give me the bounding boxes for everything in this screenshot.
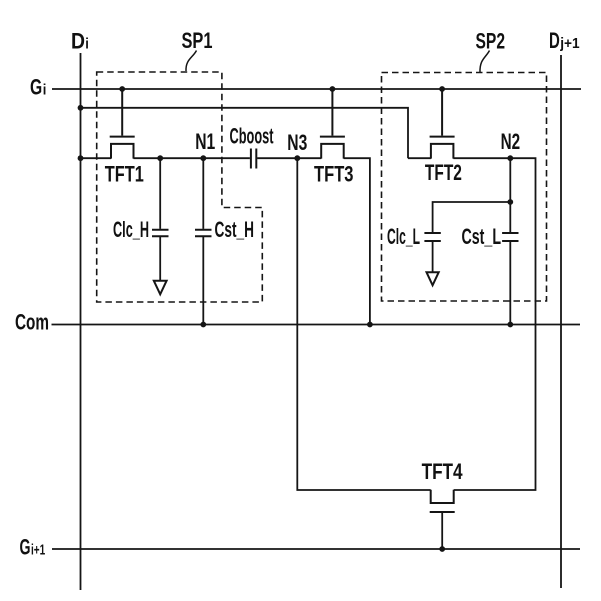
wire TFT4 gate lead to Gi+1 <box>441 513 443 549</box>
capacitor Cst_L bottom plate <box>502 240 518 242</box>
transistor TFT3 channel staple <box>321 144 344 159</box>
ground triangle under Clc_H <box>154 281 167 295</box>
svg-text:Cst_L: Cst_L <box>462 224 502 249</box>
wire Cst_H top lead (N1 down) <box>202 158 204 229</box>
transistor TFT4 channel staple (inverted) <box>431 490 454 503</box>
svg-text:N2: N2 <box>501 129 520 154</box>
wire Dj+1 data line vertical <box>560 55 562 588</box>
capacitor Cboost right plate <box>255 149 257 169</box>
transistor TFT3 gate lead <box>331 89 333 136</box>
wire Com line horizontal <box>52 324 581 326</box>
svg-text:i+1: i+1 <box>31 541 45 558</box>
label Di <box>71 28 89 53</box>
svg-text:Clc_L: Clc_L <box>387 224 420 249</box>
leader squiggle SP1 <box>186 51 197 72</box>
svg-text:N1: N1 <box>195 129 215 154</box>
wire N2 vertical to Cst_L <box>509 158 511 232</box>
svg-text:N3: N3 <box>287 130 307 155</box>
capacitor Clc_H bottom plate <box>152 235 169 237</box>
capacitor Cst_H top plate <box>195 229 212 231</box>
transistor TFT3 gate bar <box>320 136 345 138</box>
wire Di data line vertical <box>80 53 82 590</box>
wire Cboost right plate to TFT3 drain <box>257 157 321 159</box>
svg-text:Cboost: Cboost <box>230 124 274 149</box>
leader squiggle SP2 <box>480 51 490 73</box>
junction dot N2 branch to Clc_L <box>507 199 513 205</box>
capacitor Clc_H top plate <box>152 229 169 231</box>
svg-text:j+1: j+1 <box>559 35 579 52</box>
svg-text:D: D <box>71 28 85 53</box>
svg-text:Clc_H: Clc_H <box>113 217 149 242</box>
svg-text:G: G <box>30 74 42 99</box>
wire Clc_H top lead <box>159 158 161 229</box>
svg-text:Cst_H: Cst_H <box>215 217 255 242</box>
svg-text:D: D <box>549 28 560 53</box>
wire N2 branch to Clc_L <box>433 202 511 232</box>
wire TFT2 source to N2 then down to TFT4 right side <box>453 158 535 490</box>
dashed box SP1 <box>97 72 263 302</box>
junction dot branch line on Di <box>78 105 84 111</box>
svg-text:i: i <box>85 35 89 52</box>
svg-text:TFT2: TFT2 <box>425 160 462 185</box>
capacitor Cst_L top plate <box>502 232 518 234</box>
svg-text:TFT3: TFT3 <box>314 161 354 186</box>
wire node N3 down and across to TFT4 left side <box>297 158 430 490</box>
label Gi+1 <box>20 534 46 559</box>
dashed box SP2 <box>382 73 547 302</box>
wire Cst_H bottom lead to Com <box>202 237 204 325</box>
capacitor Cst_H bottom plate <box>195 235 212 237</box>
svg-text:SP1: SP1 <box>182 28 213 53</box>
wire Gi+1 gate line horizontal <box>52 548 580 550</box>
svg-text:TFT4: TFT4 <box>422 459 464 484</box>
transistor TFT1 gate lead <box>121 89 123 136</box>
wire TFT1 source to Cboost left plate <box>134 157 250 159</box>
label Gi <box>30 74 46 99</box>
wire branch drop to TFT2 drain <box>408 157 431 159</box>
transistor TFT2 gate bar <box>430 136 455 138</box>
junction dot TFT1 gate on Gi <box>119 86 125 92</box>
transistor TFT4 gate bar <box>430 511 455 513</box>
wire TFT3 source down to Com <box>344 158 370 324</box>
wire Cst_L bottom lead to Com <box>509 242 511 325</box>
junction dot node N2 <box>507 155 513 161</box>
svg-text:Com: Com <box>15 309 49 334</box>
capacitor Clc_L bottom plate <box>424 240 440 242</box>
capacitor Clc_L top plate <box>424 232 440 234</box>
wire Gi gate line horizontal <box>52 88 581 90</box>
wire Clc_H bottom lead to ground <box>159 237 161 280</box>
junction dot TFT2 gate on Gi <box>439 86 445 92</box>
junction dot TFT3 source on Com <box>367 322 373 328</box>
junction dot Cst_L on Com <box>507 322 513 328</box>
ground triangle under Clc_L <box>427 272 439 285</box>
svg-text:TFT1: TFT1 <box>105 161 144 186</box>
svg-text:SP2: SP2 <box>476 29 506 54</box>
transistor TFT1 channel staple <box>111 144 134 159</box>
junction dot node N1 <box>200 155 206 161</box>
capacitor Cboost left plate <box>250 149 252 169</box>
label Dj+1 <box>549 28 580 53</box>
junction dot Clc_H branch <box>157 155 163 161</box>
junction dot TFT4 gate on Gi+1 <box>439 546 445 552</box>
svg-text:i: i <box>43 81 47 98</box>
junction dot node N3 <box>294 155 300 161</box>
junction dot Cst_H on Com <box>200 322 206 328</box>
transistor TFT1 gate bar <box>110 136 135 138</box>
wire TFT1 drain from Di <box>81 157 112 159</box>
wire Clc_L bottom lead to ground <box>432 242 434 272</box>
svg-text:G: G <box>20 534 31 559</box>
wire gate branch line to TFT2 drain <box>81 108 409 158</box>
transistor TFT2 channel staple <box>431 144 454 159</box>
junction dot TFT3 gate on Gi <box>330 86 336 92</box>
junction dot TFT1 drain on Di <box>78 155 84 161</box>
transistor TFT2 gate lead <box>441 89 443 136</box>
